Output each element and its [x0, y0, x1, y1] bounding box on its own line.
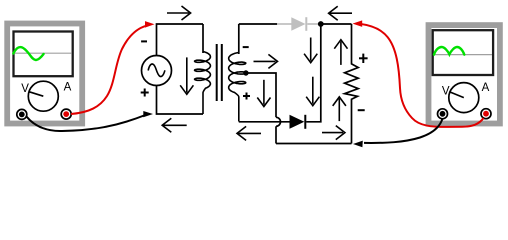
resistor R1 branch — [345, 24, 359, 144]
transformer T1 secondary winding — [238, 24, 240, 54]
secondary plus label — [243, 95, 250, 97]
meter M2 red test lead — [360, 24, 484, 127]
meter M2 rectified trace — [434, 47, 464, 55]
arrow electron flow bottom-right — [322, 132, 343, 134]
svg-text:A: A — [482, 82, 490, 94]
meter M2 movement dial — [449, 83, 479, 113]
transformer T1 core — [216, 44, 218, 101]
meter M1 black terminal — [17, 109, 27, 119]
arrow electron flow bottom-center — [238, 132, 261, 134]
meter M1 needle — [29, 92, 43, 97]
wire center tap — [246, 73, 276, 117]
meter M2 black test lead — [364, 119, 443, 143]
meter M2 screen centerline — [434, 54, 492, 56]
svg-text:A: A — [64, 82, 72, 94]
arrow electron flow resistor upper — [340, 42, 342, 65]
arrow electron flow output upper — [310, 38, 312, 61]
diode D2 (conducting) — [239, 121, 290, 123]
ac source plus label — [141, 92, 149, 94]
meter M2 needle — [450, 92, 464, 98]
arrow electron flow center tap right — [254, 60, 276, 62]
meter M1 case — [7, 24, 82, 124]
wire output down branch — [306, 24, 321, 122]
meter M2 screen — [433, 30, 493, 75]
wire hop over diode wire — [276, 117, 281, 126]
diode D1 (not conducting, gray) — [291, 17, 305, 31]
meter M1 screen — [14, 32, 73, 77]
resistor R1 minus label — [358, 109, 365, 111]
meter M1 screen centerline — [15, 52, 72, 54]
arrow electron flow resistor lower — [338, 99, 340, 122]
meter M1 black test lead — [27, 116, 145, 132]
ac source minus label — [141, 40, 147, 42]
center tap node — [243, 70, 248, 75]
meter M2 black terminal — [438, 109, 448, 119]
wire secondary top to diode D1 — [239, 23, 277, 25]
meter M2 red terminal — [481, 109, 491, 119]
meter M2 case — [429, 25, 500, 123]
transformer T1 primary winding — [202, 24, 204, 53]
arrow electron flow top-right — [330, 12, 352, 14]
meter M1 movement dial — [28, 81, 58, 111]
arrow electron flow top-left — [167, 12, 189, 14]
wire left branch top — [157, 24, 204, 56]
arrow electron flow primary down — [186, 57, 188, 92]
node output junction — [318, 21, 324, 27]
ac source V1 — [142, 56, 172, 86]
arrow electron flow bottom-left — [163, 124, 187, 126]
wire gray segment to diode D1 — [277, 23, 291, 25]
secondary minus label — [243, 46, 249, 48]
resistor R1 plus label — [359, 57, 368, 59]
meter M1 red test lead — [71, 26, 147, 114]
wire bottom return — [276, 143, 352, 145]
wire top output — [321, 23, 352, 25]
wire left branch bottom — [157, 85, 204, 114]
arrow electron flow secondary down — [263, 80, 265, 105]
meter M1 sine trace — [13, 47, 43, 60]
meter M1 red terminal — [61, 109, 71, 119]
arrow electron flow output lower — [312, 77, 314, 104]
